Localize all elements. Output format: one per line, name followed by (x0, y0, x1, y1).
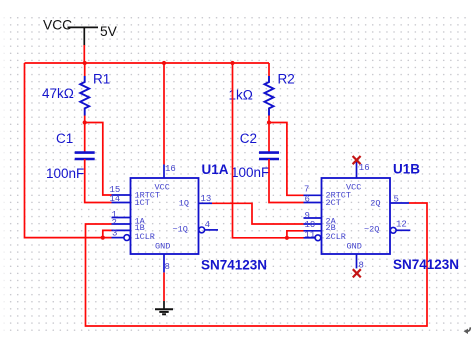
wire R1 bottom to C1 top (84, 116, 86, 153)
svg-text:5V: 5V (100, 24, 118, 39)
svg-text:1CT: 1CT (135, 198, 150, 208)
op U1A chip body (131, 178, 199, 254)
svg-text:SN74123N: SN74123N (201, 258, 267, 273)
power symbol VCC 5V (43, 18, 118, 46)
op U1B chip body (322, 178, 391, 254)
paragraph return mark (464, 327, 471, 334)
resistor R1 (80, 76, 89, 116)
svg-text:7: 7 (304, 185, 309, 195)
U1A pin stub 13 (199, 202, 213, 204)
svg-text:4: 4 (205, 220, 210, 230)
svg-text:14: 14 (110, 194, 121, 204)
wire C1 bottom to pin14 1CT (85, 159, 112, 203)
resistor R2 (265, 76, 274, 116)
wire left loop VCC to 1CLR (25, 63, 112, 238)
svg-text:6: 6 (305, 195, 310, 205)
junction bus U1A pin16 (162, 61, 166, 65)
svg-text:C1: C1 (56, 131, 73, 146)
wire 1B pin2 to bottom run to 2Q pin5 (86, 203, 428, 326)
wire R1 top lead from bus (84, 63, 86, 76)
svg-text:8: 8 (359, 261, 364, 271)
wire C2 bottom to pin6 2CT (269, 159, 304, 203)
svg-text:13: 13 (201, 194, 212, 204)
svg-text:~1Q: ~1Q (173, 224, 188, 234)
U1A pin4 bubble stub (199, 227, 218, 233)
U1A pin stub 16 (163, 165, 165, 179)
svg-text:VCC: VCC (43, 18, 72, 33)
U1B pin stub 10 (304, 223, 322, 225)
wire 1Q pin13 to 2B pin10 (212, 203, 304, 224)
no-connect X on pin16 (353, 156, 361, 164)
U1A 1CLR bubble stub (112, 235, 130, 241)
svg-text:1CLR: 1CLR (135, 232, 155, 242)
svg-text:U1A: U1A (202, 162, 229, 177)
svg-text:2CT: 2CT (326, 198, 341, 208)
svg-text:2Q: 2Q (370, 199, 380, 209)
svg-text:3: 3 (112, 228, 117, 238)
U1B 2CLR bubble stub (304, 235, 321, 241)
U1A pin stub 3 (112, 229, 131, 231)
svg-text:R2: R2 (278, 72, 295, 87)
svg-text:2CLR: 2CLR (326, 232, 346, 242)
junction 2CLR node (285, 236, 289, 240)
svg-text:16: 16 (165, 164, 176, 174)
wire bus to U1A pin16 (163, 63, 165, 165)
junction R2 C2 node (267, 120, 271, 124)
U1B pin stub 8 (356, 254, 358, 268)
ground symbol (155, 301, 173, 314)
svg-text:12: 12 (396, 220, 407, 230)
svg-text:5: 5 (394, 195, 399, 205)
svg-text:16: 16 (359, 163, 370, 173)
U1B pin12 bubble stub (390, 227, 410, 233)
U1A pin stub 2 (112, 223, 131, 225)
capacitor C2 (259, 153, 279, 159)
U1B pin stub 9 (304, 217, 322, 219)
U1A pin stub 14 (112, 202, 131, 204)
wire branch junction to pin15 1RTCT (85, 123, 112, 196)
svg-text:100nF: 100nF (46, 166, 84, 181)
svg-text:8: 8 (165, 262, 170, 272)
U1A pin stub 8 (163, 254, 165, 272)
wire bus to 2CLR node (233, 63, 304, 238)
svg-text:11: 11 (305, 230, 316, 240)
svg-text:~2Q: ~2Q (364, 224, 379, 234)
wire U1A pin8 to ground (163, 272, 165, 301)
wire branch junction to pin7 2RTCT (269, 123, 304, 196)
svg-text:2: 2 (112, 218, 117, 228)
capacitor C1 (75, 153, 95, 159)
svg-text:10: 10 (305, 220, 316, 230)
wire VCC bus (25, 62, 270, 64)
svg-text:GND: GND (155, 242, 170, 252)
wire R2 bottom to C2 top (268, 116, 270, 153)
wire pin3 jog to 1CLR node (103, 230, 112, 237)
U1A pin stub 1 (112, 217, 131, 219)
U1B pin stub 11 (304, 230, 322, 232)
U1B pin stub 7 (304, 194, 322, 196)
U1B pin stub 16 (356, 162, 358, 179)
svg-text:SN74123N: SN74123N (393, 257, 459, 272)
U1A pin stub 15 (112, 194, 131, 196)
junction R1 C1 node (83, 120, 87, 124)
svg-text:GND: GND (347, 242, 362, 252)
U1B pin stub 6 (304, 202, 322, 204)
wire pin11 jog to 2CLR node (287, 231, 304, 238)
wire VCC stem to bus (83, 45, 85, 63)
svg-text:1Q: 1Q (179, 199, 189, 209)
svg-text:R1: R1 (93, 72, 110, 87)
wire R2 top lead from bus corner (268, 63, 270, 76)
no-connect X on pin8 (353, 269, 361, 277)
svg-text:C2: C2 (240, 131, 257, 146)
svg-text:100nF: 100nF (231, 165, 269, 180)
junction 1CLR node (101, 236, 105, 240)
svg-text:U1B: U1B (393, 162, 420, 177)
svg-text:47kΩ: 47kΩ (42, 86, 74, 101)
U1B pin stub 5 (390, 202, 409, 204)
junction bus 2CLR line (230, 61, 234, 65)
junction bus R1 (83, 61, 87, 65)
